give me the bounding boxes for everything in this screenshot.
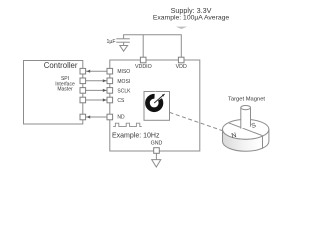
controller SPI label [55,76,75,92]
magnet side wall [223,129,269,151]
svg-text:Example: 100µA Average: Example: 100µA Average [153,15,230,22]
arrow MISO (points left) [87,70,91,73]
chip box [110,60,200,151]
chip pin ND [107,114,113,120]
svg-text:GND: GND [151,141,163,147]
wire CS [86,99,107,101]
wire supply rail [124,35,182,57]
node ND output waveform [113,123,142,126]
wire MOSI [86,80,107,82]
svg-text:Target Magnet: Target Magnet [228,96,265,102]
wire MISO [86,70,107,72]
chip pin VDD [178,57,184,63]
chip pin CS [107,97,113,103]
svg-text:SCLK: SCLK [117,88,131,94]
svg-text:MISO: MISO [117,69,130,75]
arrow ND (points left) [87,115,91,118]
node supply annotation text [153,6,230,22]
chip pin VDDIO [140,57,146,63]
wire VDDIO drop [142,35,144,58]
supply annotation arrow [176,27,187,29]
ground (GND pin) [152,154,161,168]
controller pin 2 [80,78,86,84]
svg-text:ND: ND [117,114,125,120]
svg-text:Supply: 3.3V: Supply: 3.3V [171,6,212,15]
svg-text:VDDIO: VDDIO [135,64,152,70]
chip pin GND [154,148,160,154]
arrow SCLK (points right) [103,89,107,92]
controller pin 3 [80,88,86,94]
arrow CS (points right) [103,98,107,101]
svg-text:Master: Master [57,87,73,93]
svg-text:Controller: Controller [44,61,78,70]
svg-text:VDD: VDD [176,64,187,70]
dashed coupling line to magnet [170,112,224,131]
chip pin MOSI [107,78,113,84]
magnet pole divider [229,123,263,136]
wire ND [86,116,107,118]
svg-text:Example: 10Hz: Example: 10Hz [112,132,160,139]
controller box [24,61,83,125]
angle sensor dial box [144,92,170,121]
arrow MOSI (points right) [103,79,107,82]
svg-text:MOSI: MOSI [117,79,130,85]
capacitor C1 1uF [106,39,129,45]
ground (capacitor) [120,42,128,51]
wire SCLK [86,89,107,91]
chip pin SCLK [107,88,113,94]
magnet shaft [241,106,251,129]
svg-text:CS: CS [117,98,125,104]
chip pin MISO [107,68,113,74]
controller pin 1 [80,68,86,74]
svg-text:1µF: 1µF [106,39,115,45]
magnet top face [223,119,269,139]
controller pin 5 [80,114,86,120]
angle sensor dial icon [145,92,165,113]
controller pin 4 [80,97,86,103]
magnet pole divider on wall [262,136,264,149]
